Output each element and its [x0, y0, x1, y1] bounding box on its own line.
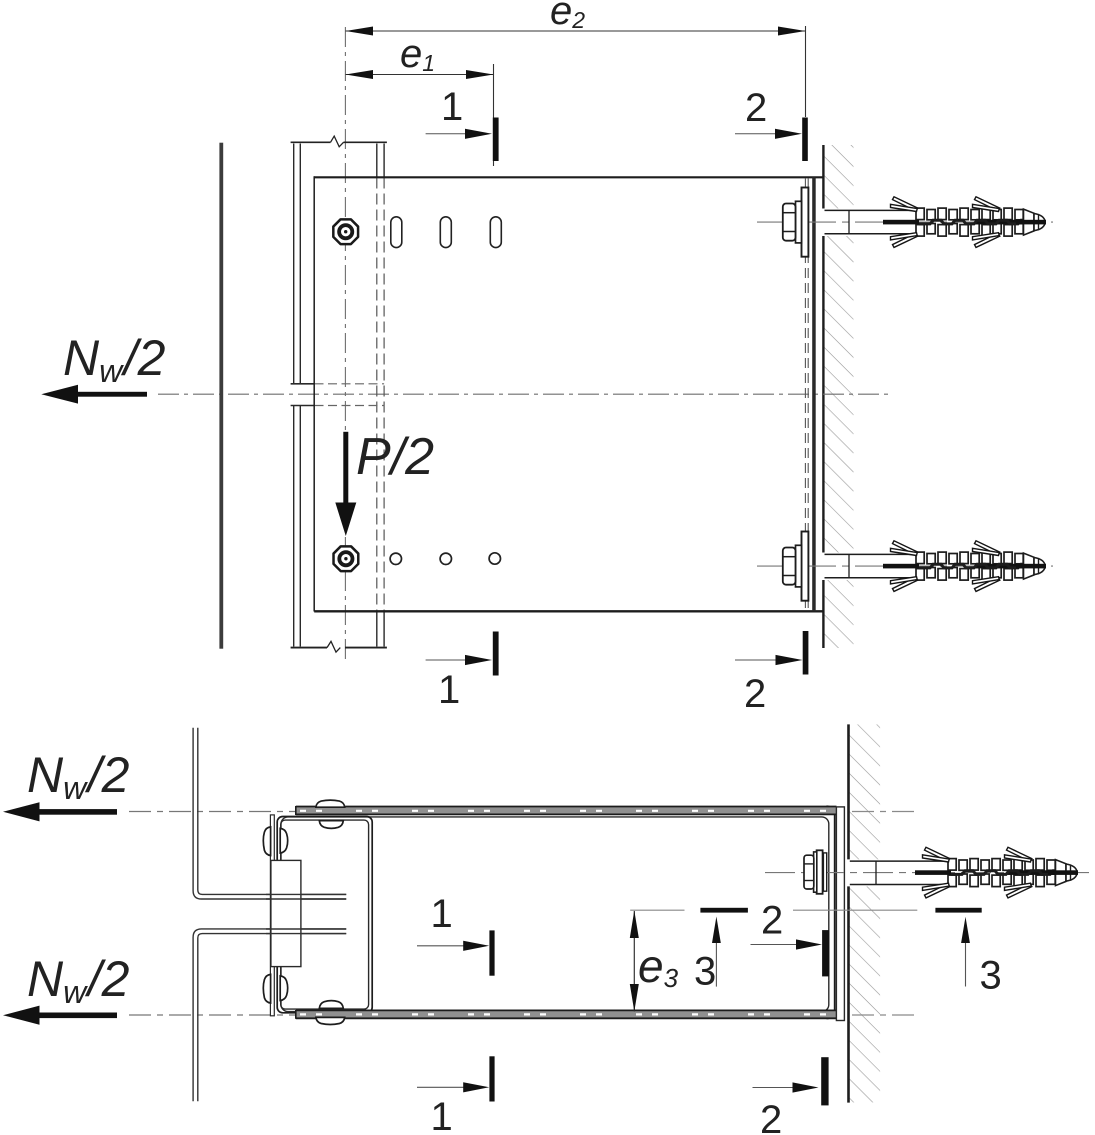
svg-text:Nw/2: Nw/2: [27, 951, 130, 1010]
facade panel sheet B (lower, bends right): [193, 929, 346, 1101]
svg-text:2: 2: [761, 899, 783, 943]
wall mounting strip: [836, 807, 844, 1021]
svg-text:1: 1: [441, 85, 463, 129]
panel lips over block: [266, 894, 346, 933]
svg-text:2: 2: [744, 672, 766, 716]
section marker 2 (bottom): [735, 659, 779, 661]
anchor assembly (bottom view): [765, 847, 1095, 898]
clamp insert block: [271, 860, 301, 966]
wall face line: [847, 724, 850, 859]
section marker 3 (right): [935, 908, 981, 913]
centerline Nw lower: [129, 1014, 298, 1016]
svg-text:e3: e3: [638, 940, 679, 993]
svg-text:P/2: P/2: [356, 428, 434, 486]
hidden dashed pair near right edge: [805, 178, 808, 610]
anchor bolt assemblies (top view): [757, 188, 1053, 257]
clamp box inner: [281, 820, 369, 1009]
mullion channel hidden dashed lines: [377, 178, 384, 611]
svg-text:Nw/2: Nw/2: [27, 747, 130, 806]
svg-text:e2: e2: [550, 0, 585, 33]
facade panel sheet A (upper, bends right): [193, 728, 346, 899]
slotted holes row 1: [391, 217, 502, 248]
channel inner wall (long rounded rect): [281, 817, 829, 1012]
force arrow P/2: [343, 432, 348, 504]
svg-text:3: 3: [980, 954, 1002, 998]
channel top cap with break: [291, 136, 387, 147]
svg-text:2: 2: [745, 86, 767, 130]
svg-text:1: 1: [431, 1095, 453, 1135]
clamp front plate: [270, 815, 274, 1016]
centerline vertical (mullion axis): [344, 27, 346, 659]
svg-text:1: 1: [431, 892, 453, 936]
svg-text:1: 1: [438, 668, 460, 712]
section marker 1 (bv lower): [417, 1086, 466, 1088]
bottom rail band: [296, 1010, 837, 1019]
bracket plate edges: [314, 176, 823, 178]
section marker 2 (bottom): [753, 1087, 796, 1089]
top rail band: [296, 806, 837, 815]
channel outer right end wall: [827, 806, 835, 1018]
clamp box outer: [277, 817, 372, 1013]
mullion channel right lines solid parts: [377, 144, 384, 647]
svg-text:3: 3: [694, 950, 716, 994]
bolt head domes on rails: [263, 800, 344, 1024]
wall (top view) hatched: [823, 145, 854, 648]
left glass plate: [219, 143, 223, 649]
vertical angle edge-on (dark band): [812, 177, 816, 611]
rivet fasteners on mullion axis: [333, 219, 358, 244]
wall (bottom view) hatched: [848, 724, 881, 1102]
round holes row 2: [390, 553, 500, 565]
svg-text:Nw/2: Nw/2: [63, 330, 166, 389]
centerline horizontal Nw: [158, 393, 893, 395]
mullion joint caps: [291, 384, 315, 406]
svg-text:2: 2: [760, 1098, 782, 1135]
wall face line: [822, 145, 824, 648]
svg-text:e1: e1: [400, 32, 435, 76]
section marker 3 (left): [700, 908, 748, 913]
channel bottom cap with break: [291, 641, 387, 652]
force arrow Nw/2 (bv lower): [3, 1006, 40, 1025]
dimension e2: [346, 26, 806, 117]
section marker 1 (bottom): [426, 659, 468, 661]
centerline Nw upper: [129, 811, 298, 813]
bolt stack (bottom view): [804, 850, 827, 894]
force arrow Nw/2 (bv upper): [3, 802, 40, 821]
force arrow Nw/2 (top view): [41, 385, 78, 404]
dimension e1: [346, 64, 494, 166]
mullion channel visible left lines: [294, 144, 301, 647]
dimension e3: [630, 909, 684, 911]
